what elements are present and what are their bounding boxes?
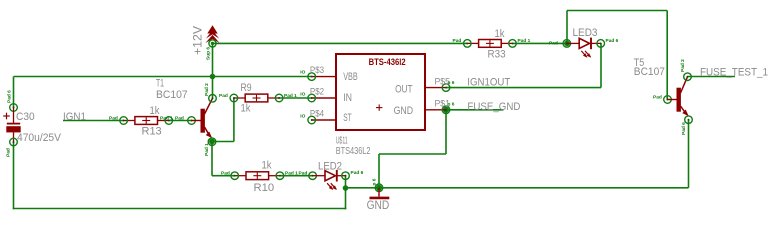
pin P$3 (VBB) [308,73,336,81]
svg-text:R10: R10 [254,182,275,194]
svg-text:Pad 2: Pad 2 [204,83,210,96]
wire junction down to T1 collector [212,77,214,99]
svg-text:GND: GND [394,105,414,117]
svg-text:Pad 6: Pad 6 [351,170,364,176]
svg-text:LED2: LED2 [318,161,342,173]
svg-text:BTS-436l2: BTS-436l2 [369,57,406,67]
wire FUSE_TEST_1 stub [688,76,736,78]
LED LED3 [567,38,601,58]
svg-text:BC107: BC107 [634,66,665,78]
svg-text:470u/25V: 470u/25V [17,132,62,144]
pin P$2 (IN) [308,94,336,102]
wire GND pin down [445,110,447,154]
pin P$1 (GND) [425,106,450,114]
svg-text:Pad: Pad [109,115,118,121]
svg-text:Pad: Pad [221,171,230,177]
junction LED2 cathode / GND rail / bottom rail [343,185,349,191]
svg-text:1k: 1k [150,105,160,117]
svg-text:Pad 6: Pad 6 [7,90,13,103]
svg-text:OUT: OUT [395,83,413,95]
svg-text:FUSE_TEST_1: FUSE_TEST_1 [700,66,768,78]
svg-text:P$3: P$3 [310,65,324,75]
wire GND route left [379,153,446,155]
svg-text:o 6: o 6 [448,102,455,108]
pin LED2 cathode [342,172,350,180]
wire GND rail [346,187,689,189]
svg-text:Pad 1: Pad 1 [160,115,173,121]
junction GND symbol on rail [376,185,382,191]
svg-text:VBB: VBB [343,71,358,83]
svg-text:C30: C30 [16,111,35,123]
svg-text:ST: ST [343,112,352,124]
svg-text:Pad 1: Pad 1 [285,171,298,177]
svg-text:Sup 6: Sup 6 [206,47,212,60]
wire bottom rail [13,208,347,210]
wire T1 emitter down [211,142,213,176]
svg-text:Pad: Pad [219,93,228,99]
wire GND route down to GND symbol [378,154,380,184]
svg-text:R33: R33 [488,48,506,60]
wire VBB rail [14,76,312,78]
svg-text:o 6: o 6 [448,80,455,86]
pin P$5 (OUT) [425,84,450,92]
svg-text:p 6: p 6 [372,178,378,185]
junction LED3 anode node [564,41,570,47]
svg-text:Pad 2: Pad 2 [680,59,686,72]
svg-text:Pad 1: Pad 1 [284,93,297,99]
pin LED2 anode [309,172,317,180]
transistor T1 BC107 [188,95,217,146]
svg-text:Pad 6: Pad 6 [606,38,619,44]
LED LED2 [313,170,346,190]
svg-text:P$2: P$2 [310,87,324,97]
svg-text:Pad: Pad [299,171,308,177]
resistor R13 1k [120,117,173,125]
pin P$4 (ST) [308,116,336,124]
wire C30 bottom down left edge [13,142,15,209]
resistor R33 1k [464,40,517,48]
junction VBB rail / supply column [210,74,216,80]
pin LED3 cathode [597,40,605,48]
svg-text:Pad: Pad [453,38,462,44]
wire supply pin down to VBB rail [212,43,214,76]
svg-text:IO: IO [300,70,305,76]
wire IGN1 stub to R13 [63,120,124,122]
svg-text:IGN1OUT: IGN1OUT [467,77,510,89]
IC origin cross [376,107,382,109]
wire LED3 anode up [566,11,568,44]
wire down to T5 base [666,11,668,100]
svg-text:R13: R13 [142,125,162,137]
svg-text:GND: GND [367,198,390,212]
wire R10 to LED2 [280,175,313,177]
junction dot on T1 emitter pin [209,139,215,145]
svg-text:T1: T1 [156,78,164,90]
svg-text:BTS436L2: BTS436L2 [336,146,371,157]
svg-text:1k: 1k [241,103,251,115]
ground symbol [370,184,390,198]
resistor R10 1k [231,172,284,180]
pin LED3 anode [563,40,571,48]
svg-text:Pad 1: Pad 1 [204,143,210,156]
svg-text:Pad: Pad [175,115,184,121]
transistor T5 BC107 [664,73,693,124]
junction IC GND pin node [443,107,449,113]
svg-text:+12V: +12V [191,26,205,55]
svg-text:1k: 1k [262,160,272,172]
svg-text:IN: IN [343,92,352,104]
wire R9 to IC IN pin [279,97,312,99]
wire IGN1OUT net: OUT pin to LED3 cathode riser [446,87,601,89]
svg-text:Pad 1: Pad 1 [518,38,531,44]
svg-text:IO: IO [300,91,305,97]
wire R9 left pin down [233,98,235,142]
wire to R10 left pin [212,175,235,177]
wire R13 to T1 base [169,120,192,122]
wire FUSE_GND stub [446,109,504,111]
svg-text:R9: R9 [241,82,252,94]
svg-text:U$11: U$11 [336,135,348,146]
svg-text:BC107: BC107 [156,89,188,101]
svg-text:IGN1: IGN1 [63,111,86,123]
op-amp/IC U$11 BTS436L2 box [336,54,425,130]
supply +12V symbol [205,25,219,47]
wire LED2 cathode down to bottom rail [345,176,347,210]
svg-text:FUSE_GND: FUSE_GND [467,101,520,113]
svg-text:Pad: Pad [653,94,662,100]
wire to T1 emitter junction [212,141,234,143]
svg-text:Pad: Pad [6,148,12,157]
svg-text:LED3: LED3 [573,27,598,39]
junction T1 emitter node [209,139,215,145]
svg-text:P$4: P$4 [310,109,324,119]
svg-text:Pad: Pad [549,41,558,47]
wire T5 emitter down to GND rail [688,120,690,188]
wire R33 to LED3 anode junction [513,42,567,44]
wire riser up to LED3 cathode [600,43,602,87]
resistor R9 1k [230,94,283,102]
svg-text:1k: 1k [495,28,505,40]
svg-text:Pad 6: Pad 6 [681,122,687,135]
capacitor C30 [3,104,21,146]
wire +12V rail top: supply to R33 [213,42,468,44]
svg-text:IO: IO [300,113,305,119]
wire left edge down to C30 top [13,77,15,108]
wire top loop to T5 base column [567,10,667,12]
